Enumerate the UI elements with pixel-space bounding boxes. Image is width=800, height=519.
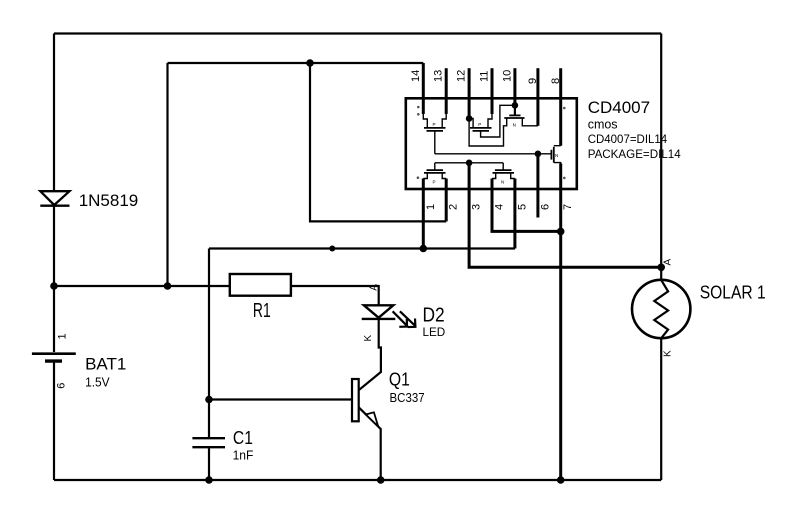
svg-text:1N5819: 1N5819 (79, 191, 139, 210)
wire base of Q1 (209, 398, 352, 400)
wire left rail mid (diode to battery) (53, 204, 55, 352)
solar cell SOLAR1 zigzag (654, 280, 668, 338)
svg-text:N: N (555, 153, 558, 158)
pin 5 stub (513, 179, 516, 249)
pin 7 stub to bottom rail (559, 164, 562, 481)
junction dot P2 gate pin10 (512, 102, 519, 109)
pin 3 stub and wire to solar node A (469, 163, 661, 267)
svg-text:7: 7 (562, 204, 574, 210)
transistor Q1 emitter arrowhead (366, 412, 378, 426)
svg-text:1: 1 (56, 333, 68, 339)
svg-text:SOLAR 1: SOLAR 1 (700, 281, 766, 302)
junction dot gate bus pin6 (535, 151, 542, 158)
pmos P2 drain lead (488, 114, 492, 127)
svg-text:10: 10 (501, 70, 513, 82)
pmos P1 (pins 14/13) source lead (423, 114, 427, 127)
pmos P2 gate route to pin10 (481, 105, 515, 137)
svg-text:11: 11 (479, 71, 491, 82)
pmos P3 gate bar (427, 169, 444, 171)
svg-text:6: 6 (56, 383, 68, 389)
nmos N1 (right, pins 8/7) drain lead from pin8 (554, 145, 561, 147)
pin 1 stub (422, 179, 425, 249)
wire right rail upper (660, 34, 662, 281)
svg-text:D2: D2 (423, 304, 445, 327)
junction dot y248 isolated (329, 246, 335, 252)
junction dot x209 bottom (205, 476, 213, 484)
transistor Q1 base bar (352, 379, 359, 421)
nmos N1 channel bar (553, 147, 555, 163)
wire LED cathode to collector (359, 319, 381, 390)
pin 13 stub (445, 68, 448, 114)
nmos N2 source lead (504, 118, 507, 128)
svg-text:N: N (513, 123, 516, 128)
capacitor C1 plates (192, 438, 225, 447)
svg-text:1: 1 (425, 204, 437, 210)
LED D2 (362, 305, 396, 319)
svg-text:CD4007: CD4007 (588, 98, 650, 117)
pin 8 stub (559, 68, 562, 146)
svg-text:14: 14 (410, 70, 422, 82)
svg-text:13: 13 (433, 70, 445, 82)
nmos N1 gate bar (550, 150, 552, 160)
wire gate bus pin3 (P3/N3 gates) (435, 162, 503, 164)
svg-text:1.5V: 1.5V (85, 374, 110, 389)
LED D2 emission arrows (393, 311, 416, 327)
svg-text:1nF: 1nF (233, 449, 254, 463)
svg-text:N: N (501, 180, 504, 185)
pmos P3 channel bar (424, 172, 446, 174)
junction dot pin1 on y248 (420, 245, 428, 253)
nmos N3 channel bar (493, 172, 515, 174)
svg-text:4: 4 (494, 204, 506, 210)
IC internals: thin lines (423, 105, 560, 178)
nmos N2 channel bar (504, 117, 524, 119)
junction dot pin4/pin7 (557, 228, 565, 236)
wire top rail (54, 32, 661, 34)
wire R1 to LED (291, 286, 379, 305)
bulk tick marks (417, 106, 566, 180)
pin 11 stub (491, 68, 494, 114)
pmos P3 drain lead to pin2 (442, 173, 446, 179)
nmos N2 gate bar (509, 114, 520, 116)
wire vertical x310 to pin2 (310, 63, 446, 221)
junction dot vdd/x310 (306, 59, 314, 67)
pin 6 stub (n.c.) (536, 154, 539, 218)
pin 9 stub (536, 68, 539, 126)
svg-text:8: 8 (550, 78, 562, 84)
junction dot node A right rail (657, 264, 665, 272)
resistor R1 (230, 274, 291, 296)
junction dot emitter bottom (377, 476, 385, 484)
nmos N3 drain lead to pin5 (511, 173, 515, 179)
wire gate bus pin6 (P1/N1 gates) (435, 153, 552, 155)
wire vertical x167.5 (166, 63, 168, 286)
svg-text:C1: C1 (233, 427, 253, 448)
junction dot x167.5 on R1 rail (164, 282, 172, 290)
battery BAT1 plates (32, 354, 76, 361)
nmos N1 source lead to pin7 (554, 163, 561, 165)
junction dot base node x209 (205, 396, 213, 404)
junction dot gate bus pin3 (466, 160, 473, 167)
nmos N2 (top right) gate lead from pin10 (514, 105, 516, 115)
svg-text:P: P (433, 122, 436, 127)
pmos P1 gate lead (434, 131, 436, 154)
pin 14 stub (422, 63, 425, 114)
wire bottom rail (54, 479, 661, 481)
svg-text:9: 9 (527, 78, 539, 84)
junction dot pin7 bottom (557, 476, 565, 484)
svg-text:P: P (478, 122, 481, 127)
svg-text:BC337: BC337 (390, 391, 425, 405)
IC U1 CD4007 package box (406, 98, 577, 189)
pmos P3 (pins 1/2) gate lead (434, 163, 436, 170)
svg-text:CD4007=DIL14: CD4007=DIL14 (588, 132, 668, 146)
svg-text:6: 6 (539, 204, 551, 210)
pmos P2 channel bar (470, 127, 492, 129)
svg-text:P: P (433, 180, 436, 185)
pin 10 stub (513, 68, 516, 105)
svg-text:A: A (663, 259, 674, 266)
wire battery to R1 y286 (54, 285, 230, 287)
junction dot battery/R1 rail left (50, 282, 58, 290)
pmos P1 channel bar (424, 127, 446, 129)
svg-text:LED: LED (423, 325, 446, 339)
svg-text:12: 12 (456, 70, 468, 82)
svg-text:Q1: Q1 (389, 368, 410, 389)
svg-text:R1: R1 (253, 300, 271, 322)
svg-text:3: 3 (471, 204, 483, 210)
svg-text:5: 5 (516, 204, 528, 210)
wire emitter to bottom (359, 407, 381, 480)
pin 12 stub (468, 68, 471, 118)
nmos N2 drain lead to pin9 (522, 118, 538, 126)
svg-text:cmos: cmos (588, 118, 618, 132)
pmos P2 gate bar (473, 130, 490, 132)
pmos P1 gate bar (427, 130, 444, 132)
wire pin12 internal to N2 source (469, 119, 503, 147)
wire vertical x209 upper (to C1) (208, 249, 210, 438)
junction dot P2 source pin12 (466, 115, 473, 122)
solar cell SOLAR1 circle (632, 280, 690, 338)
pin 4 stub and wire to pin7 vertical (492, 179, 561, 232)
wire left rail upper (to diode) (53, 34, 55, 193)
svg-text:K: K (363, 335, 374, 342)
nmos N3 source lead to pin4 (492, 173, 496, 179)
svg-text:2: 2 (448, 204, 460, 210)
svg-text:A: A (368, 284, 379, 291)
wire node y248.5 (to pin5) (209, 247, 515, 249)
svg-text:PACKAGE=DIL14: PACKAGE=DIL14 (588, 147, 681, 161)
svg-text:BAT1: BAT1 (85, 354, 126, 373)
wire vdd branch y63 (168, 62, 424, 64)
diode 1N5819 (40, 191, 69, 206)
pmos P1 drain lead (442, 114, 446, 127)
wire vertical x209 lower (C1 to bottom) (208, 448, 210, 480)
pmos P2 (pins 12/11) source lead from tap (469, 119, 473, 128)
svg-text:K: K (663, 350, 674, 357)
wire left rail lower (battery to bottom) (53, 363, 55, 481)
pin 2 stub (445, 179, 448, 222)
nmos N3 gate bar (495, 169, 512, 171)
nmos N3 (pins 4/5) gate lead (502, 163, 504, 170)
wire right rail lower (solar K to bottom) (660, 338, 662, 480)
pmos P3 source lead to pin1 (423, 173, 427, 179)
